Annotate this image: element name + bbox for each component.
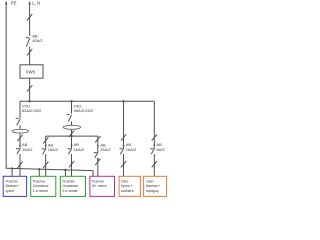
- svg-text:16А/2: 16А/2: [22, 147, 33, 152]
- junction dot branch 4: [97, 158, 99, 160]
- cable slash branch 1 lower: [17, 162, 22, 168]
- PE distribution wire: [6, 168, 93, 176]
- branch 2 drop from sub-bus: [45, 136, 47, 148]
- cable slash branch 6 lower: [152, 161, 157, 167]
- svg-text:kWh: kWh: [26, 69, 35, 74]
- main bus wire: [20, 100, 154, 102]
- sub-bus wire under УЗО2: [46, 135, 98, 137]
- wire branch 5 to box: [123, 154, 125, 176]
- branch 4 plug arrow: [97, 143, 99, 146]
- cable slash branch 4: [95, 136, 100, 142]
- load box 3 sockets main line 2: [60, 176, 85, 196]
- PE stub to box 1: [11, 169, 13, 177]
- main breaker АВ 40А/2 contact: [26, 37, 29, 39]
- PE stub to box 3: [64, 170, 66, 176]
- branch 6 drop wire: [153, 101, 155, 148]
- branch 3 drop wire: [71, 136, 73, 148]
- RCD УЗО2 contact: [67, 114, 70, 116]
- junction dot riser-bus: [28, 100, 30, 102]
- svg-text:Ванная +: Ванная +: [146, 184, 160, 188]
- svg-text:Розетки:: Розетки:: [33, 179, 46, 183]
- svg-text:Свет:: Свет:: [121, 179, 129, 183]
- svg-text:10А/2: 10А/2: [126, 147, 137, 152]
- load box 4 socket electric stove: [90, 176, 115, 196]
- wire branch 6 to box: [153, 154, 155, 176]
- RCD УЗО1 drop wire: [19, 101, 21, 118]
- wire breaker to meter: [29, 47, 31, 65]
- svg-text:коридор: коридор: [146, 189, 159, 193]
- wire L,N riser: [29, 3, 31, 36]
- cable slash branch 2 lower: [43, 162, 48, 168]
- svg-text:L, N: L, N: [32, 0, 40, 5]
- svg-text:40А/2: 40А/2: [32, 38, 43, 43]
- load box 5 light kitchen+room: [119, 176, 140, 196]
- cable slash branch 6: [152, 134, 157, 140]
- svg-text:1-я линия: 1-я линия: [33, 189, 48, 193]
- L,N riser top arrow: [28, 1, 30, 4]
- RCD УЗО2 toroid ellipse: [71, 122, 73, 126]
- PE bus vertical wire: [5, 3, 7, 169]
- wire branch 2 to box: [45, 154, 47, 176]
- junction dot branch 5 on main bus: [122, 100, 124, 102]
- svg-text:Розетки:: Розетки:: [6, 179, 19, 183]
- svg-text:Ванная +: Ванная +: [6, 184, 20, 188]
- svg-text:63А/0,03/2: 63А/0,03/2: [22, 108, 42, 113]
- PE junction dot box 3: [64, 169, 66, 171]
- svg-text:кухня: кухня: [6, 189, 15, 193]
- cable slash below meter: [27, 85, 32, 91]
- PE stub to box 2: [38, 169, 40, 176]
- breaker АВ 16А/2 branch 2: [42, 148, 45, 150]
- cable slash branch 5 lower: [121, 161, 126, 167]
- svg-text:Эл. плита: Эл. плита: [92, 184, 107, 188]
- RCD УЗО1 toroid ellipse: [19, 125, 21, 129]
- breaker АВ 10А/2 branch 5: [120, 148, 123, 150]
- svg-text:6А/2: 6А/2: [157, 147, 166, 152]
- svg-text:2-я линия: 2-я линия: [63, 189, 78, 193]
- load box 6 light bathroom+corridor: [144, 176, 167, 196]
- PE bus top arrow: [5, 1, 7, 4]
- wire branch 4 to box: [97, 158, 99, 176]
- wire meter to main bus: [29, 78, 31, 101]
- svg-text:25А/2: 25А/2: [100, 147, 111, 152]
- svg-text:Кухня +: Кухня +: [121, 184, 133, 188]
- cable slash УЗО2 output: [69, 131, 74, 137]
- branch 4 drop from sub-bus: [97, 136, 99, 152]
- wire УЗО1 to branch 1: [19, 133, 21, 148]
- RCD УЗО2 drop wire: [71, 101, 73, 113]
- branch 6 plug arrow: [153, 143, 155, 146]
- cable slash branch 4 lower: [95, 159, 100, 165]
- svg-text:16А/2: 16А/2: [74, 147, 85, 152]
- cable slash branch 3 lower: [69, 161, 74, 167]
- junction dot УЗО2 sub-bus: [70, 135, 72, 137]
- PE junction dot box 2: [38, 168, 40, 170]
- cable slash branch 1: [17, 135, 22, 141]
- breaker АВ 16А/2 branch 1: [16, 148, 19, 150]
- cable slash branch 5: [121, 134, 126, 140]
- breaker АВ 25А/2 branch 4: [94, 152, 97, 154]
- svg-text:PE: PE: [11, 0, 17, 5]
- svg-text:Основные: Основные: [33, 184, 49, 188]
- svg-text:Розетки:: Розетки:: [92, 179, 105, 183]
- branch 5 plug arrow: [123, 143, 125, 146]
- cable slash branch 2: [43, 137, 48, 143]
- breaker АВ 6А/2 branch 6: [150, 148, 153, 150]
- cable slash above meter: [27, 49, 32, 55]
- cable slash on riser: [27, 14, 32, 20]
- svg-text:Свет:: Свет:: [146, 179, 154, 183]
- wire branch 3 to box: [71, 154, 73, 176]
- wire branch 1 to box: [19, 154, 21, 176]
- branch 2 plug arrow: [45, 144, 47, 147]
- RCD УЗО1 contact: [16, 117, 19, 119]
- load box 1 sockets bathroom+kitchen: [3, 176, 26, 196]
- PE junction dot box 1: [11, 167, 13, 169]
- kWh meter box: [20, 65, 43, 78]
- branch 3 plug arrow: [71, 143, 73, 146]
- breaker АВ 16А/2 branch 3: [68, 148, 71, 150]
- svg-text:40А/0,03/2: 40А/0,03/2: [74, 108, 94, 113]
- junction dot УЗО2 on main bus: [70, 100, 72, 102]
- svg-text:Основные: Основные: [63, 184, 79, 188]
- branch 5 drop wire: [123, 101, 125, 148]
- wire УЗО2 to sub-bus: [71, 129, 73, 136]
- svg-text:Розетки:: Розетки:: [63, 179, 76, 183]
- load box 2 sockets main line 1: [31, 176, 56, 196]
- svg-text:16А/2: 16А/2: [48, 147, 59, 152]
- svg-text:комната: комната: [121, 189, 134, 193]
- branch 1 plug arrow: [19, 143, 21, 146]
